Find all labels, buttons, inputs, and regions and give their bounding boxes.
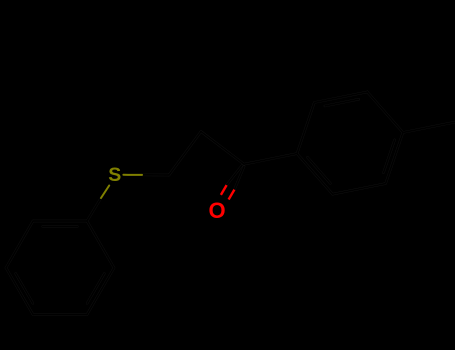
svg-text:S: S — [108, 164, 121, 186]
svg-text:O: O — [208, 198, 225, 223]
